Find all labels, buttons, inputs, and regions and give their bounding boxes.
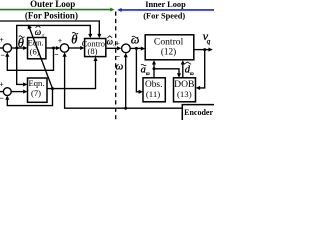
wire Control12 output vq bbox=[194, 49, 209, 51]
svg-text:+: + bbox=[58, 37, 62, 45]
green span arrow (outer loop extent) bbox=[0, 9, 111, 11]
wire omega-tilde to Obs bbox=[136, 48, 139, 91]
svg-text:Encoder: Encoder bbox=[184, 108, 213, 117]
arrowhead into Control8 top left bbox=[88, 34, 92, 38]
arrowhead into S3 bbox=[117, 46, 121, 50]
node encoder rail dot bbox=[124, 107, 127, 110]
svg-text:−: − bbox=[0, 94, 4, 102]
wire vq to DOB bbox=[199, 50, 204, 88]
blue arrowhead left bbox=[117, 8, 121, 12]
blue span arrow (inner loop extent) bbox=[121, 9, 214, 11]
block Eqn6 bbox=[28, 38, 46, 59]
label omega-tilde bbox=[131, 33, 139, 47]
svg-text:(For Position): (For Position) bbox=[25, 11, 78, 21]
wire S3 to Control12 bbox=[130, 47, 141, 49]
wire S1 to Eqn6 bbox=[12, 47, 24, 49]
arrowhead into Control8 top right bbox=[97, 34, 101, 38]
label theta-tilde 1 bbox=[18, 36, 25, 50]
summing junction S3 bbox=[122, 44, 131, 53]
wire Eqn7 output feedback to S4 bottom bbox=[7, 89, 52, 106]
summing junction S2 bbox=[60, 44, 68, 52]
wire theta2 input stub to S4 bbox=[0, 91, 3, 93]
label vq bbox=[203, 29, 211, 46]
block Eqn7 bbox=[28, 78, 48, 102]
node theta-err branch dot bbox=[15, 47, 18, 50]
svg-text:−: − bbox=[1, 51, 5, 59]
svg-text:ω: ω bbox=[116, 61, 124, 73]
loop boundary dashed line bbox=[115, 12, 117, 121]
arrowhead into Control8 bbox=[80, 46, 84, 50]
node omega-tilde dot bbox=[135, 47, 138, 50]
wire S2 to Control8 bbox=[69, 47, 81, 49]
arrowhead into DOB right bbox=[196, 86, 200, 90]
svg-text:−: − bbox=[55, 51, 59, 59]
arrowhead into Control12 bottom left bbox=[152, 60, 156, 64]
wire rail B bbox=[17, 25, 91, 48]
adaptation diagonal omega-hat through Eqn6 bbox=[30, 28, 53, 88]
arrowhead into S3 bottom bbox=[124, 53, 128, 57]
node vq dot bbox=[203, 48, 206, 51]
svg-text:Eqn.: Eqn. bbox=[29, 78, 45, 88]
svg-text:ω: ω bbox=[190, 71, 194, 77]
arrowhead into S2 bottom bbox=[63, 52, 67, 56]
block Control8 bbox=[85, 39, 106, 57]
wire Eqn7 output to Control8 bottom bbox=[47, 60, 96, 89]
green arrowhead bbox=[110, 8, 114, 12]
arrowhead into S2 bbox=[56, 46, 60, 50]
svg-text:ω: ω bbox=[146, 71, 150, 77]
wire Eqn6 to S2 bbox=[46, 47, 57, 49]
wire a-tilde branch to DOB top bbox=[154, 69, 179, 74]
svg-text:(13): (13) bbox=[177, 89, 192, 99]
node dot on Eqn6-S2 wire bbox=[52, 47, 55, 50]
arrowhead into Control12 bottom right bbox=[181, 60, 185, 64]
arrowhead into S1 bottom bbox=[5, 52, 9, 56]
arrowhead into Eqn7 lower left bbox=[23, 90, 27, 94]
wire encoder rail to S2 bottom bbox=[65, 56, 183, 109]
block Obs11 bbox=[143, 78, 165, 102]
wire theta-err branch down to Eqn7 bbox=[17, 48, 24, 84]
wire DOB output up to Control12 bbox=[182, 64, 184, 78]
svg-text:(8): (8) bbox=[87, 46, 97, 56]
wire rail A bbox=[0, 21, 99, 35]
arrowhead into DOB top bbox=[177, 73, 181, 77]
svg-text:(11): (11) bbox=[146, 89, 160, 99]
label omega-hat rf 2 bbox=[107, 36, 117, 47]
wire S4 to Eqn7 bbox=[11, 91, 24, 93]
svg-text:+: + bbox=[0, 36, 4, 44]
wire Obs output up to Control12 bbox=[153, 64, 155, 78]
label omega-hat rf bbox=[35, 26, 45, 38]
label theta-tilde 2 bbox=[71, 32, 78, 46]
svg-text:ω: ω bbox=[107, 37, 113, 47]
svg-text:+: + bbox=[0, 81, 4, 89]
svg-text:Inner Loop: Inner Loop bbox=[145, 0, 186, 9]
summing junction S1 bbox=[3, 44, 11, 52]
node a-tilde dot bbox=[153, 67, 156, 70]
summing junction S4 bbox=[3, 88, 11, 96]
label a-tilde omega bbox=[141, 64, 150, 77]
arrowhead into Eqn7 upper left bbox=[23, 82, 27, 86]
svg-text:ω: ω bbox=[131, 33, 139, 47]
svg-text:θ: θ bbox=[18, 36, 24, 50]
block DOB13 bbox=[174, 78, 196, 102]
svg-text:(For Speed): (For Speed) bbox=[143, 11, 185, 20]
arrowhead into S4 bottom bbox=[5, 95, 9, 99]
wire Control8 to S3 bbox=[106, 47, 118, 49]
wire Eqn6 output feedback to S1 bottom bbox=[7, 48, 53, 70]
block Control12 bbox=[145, 35, 194, 60]
arrowhead into Eqn6 bbox=[23, 46, 27, 50]
svg-text:+: + bbox=[116, 39, 120, 47]
arrowhead into Obs left bbox=[139, 90, 143, 94]
node Eqn7 output dot bbox=[51, 87, 54, 90]
arrowhead into Control8 bottom bbox=[93, 57, 97, 61]
svg-text:Outer Loop: Outer Loop bbox=[30, 0, 75, 9]
wire encoder branch to S3 bottom bbox=[125, 56, 127, 108]
arrowhead vq out bbox=[208, 48, 212, 52]
arrowhead of diagonal bbox=[28, 24, 32, 29]
wire theta* input stub bbox=[0, 47, 3, 49]
svg-text:ω: ω bbox=[35, 27, 41, 37]
block Encoder bbox=[182, 105, 214, 120]
arrowhead into Control12 bbox=[141, 47, 145, 51]
svg-text:(7): (7) bbox=[31, 88, 41, 98]
svg-text:(12): (12) bbox=[161, 47, 176, 57]
label d-hat omega bbox=[184, 62, 194, 77]
svg-text:q: q bbox=[207, 37, 211, 45]
